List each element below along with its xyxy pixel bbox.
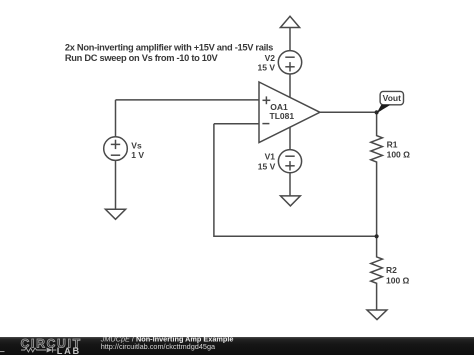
svg-text:15 V: 15 V xyxy=(258,63,276,73)
svg-text:R1: R1 xyxy=(387,139,398,149)
svg-text:Vs: Vs xyxy=(131,140,142,150)
svg-text:2x Non-inverting amplifier wit: 2x Non-inverting amplifier with +15V and… xyxy=(65,42,273,52)
svg-text:100 Ω: 100 Ω xyxy=(386,276,410,286)
svg-text:LAB: LAB xyxy=(57,346,81,355)
svg-text:R2: R2 xyxy=(386,265,397,275)
svg-text:V1: V1 xyxy=(265,152,276,162)
svg-text:http://circuitlab.com/ckcttmdg: http://circuitlab.com/ckcttmdgd45ga xyxy=(101,342,216,351)
svg-text:TL081: TL081 xyxy=(270,111,295,121)
svg-text:15 V: 15 V xyxy=(258,162,276,172)
svg-text:100 Ω: 100 Ω xyxy=(387,149,411,159)
svg-text:Run DC sweep on Vs from -10 to: Run DC sweep on Vs from -10 to 10V xyxy=(65,53,219,63)
svg-text:Vout: Vout xyxy=(383,93,401,103)
svg-text:V2: V2 xyxy=(265,53,276,63)
svg-text:1 V: 1 V xyxy=(131,150,144,160)
